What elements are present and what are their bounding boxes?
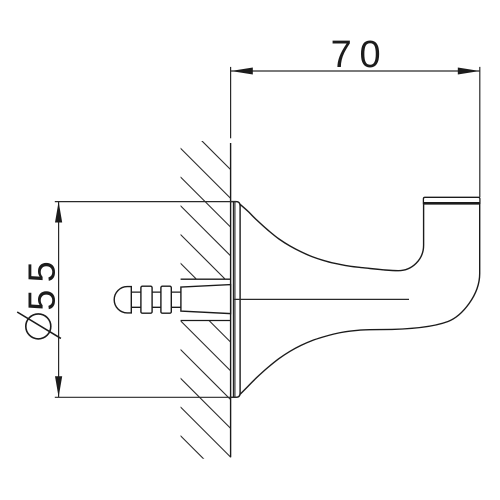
dim 55 bottom arrow <box>55 376 62 397</box>
screw ring 1 <box>141 286 152 313</box>
flange seam double line <box>232 202 234 397</box>
hole top line <box>181 278 231 280</box>
wall hatch <box>120 59 250 500</box>
bell top curve + arm inner edge <box>240 204 424 271</box>
bell bottom curve + arm outer edge <box>240 205 480 395</box>
screw neck 3 <box>171 292 181 307</box>
dim 70: dimension line <box>231 70 480 72</box>
svg-text:55: 55 <box>22 254 64 311</box>
flange outline <box>231 202 240 398</box>
screw head dome <box>114 287 131 313</box>
screw neck 1 <box>131 292 141 307</box>
svg-text:70: 70 <box>331 34 389 76</box>
dim 70 right arrow <box>458 68 480 75</box>
hook end cap <box>423 197 480 204</box>
dim 55 top extension line <box>55 201 236 203</box>
dim 70 right extension line <box>479 67 481 197</box>
screw neck 2 <box>152 292 161 307</box>
dim 55: dimension line <box>58 202 60 398</box>
screw ring 2 <box>161 286 171 313</box>
diameter symbol slash <box>17 312 61 338</box>
wall anchor <box>181 285 231 314</box>
dim 55 top arrow <box>55 202 62 223</box>
dim 70 left extension line <box>230 67 232 138</box>
dim 55 bottom extension line <box>55 396 236 398</box>
diameter symbol circle <box>26 314 51 339</box>
hole bottom line <box>181 320 231 322</box>
centerline <box>234 298 409 300</box>
dim 70 left arrow <box>231 68 253 75</box>
wall face line <box>230 143 232 457</box>
